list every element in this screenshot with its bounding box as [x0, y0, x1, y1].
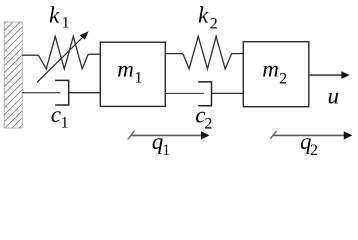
label c1 [51, 102, 69, 132]
wire damper c1 to mass m1 [69, 92, 101, 94]
label q2 [300, 129, 318, 159]
wire damper c2 to mass m2 [212, 92, 244, 94]
svg-text:1: 1 [62, 15, 70, 32]
label c2 [195, 102, 212, 132]
svg-text:k: k [198, 3, 209, 28]
svg-text:k: k [49, 3, 60, 28]
mass m2 box [243, 42, 308, 107]
damper c2 cylinder bracket [198, 82, 211, 106]
spring k2 zigzag [183, 36, 232, 69]
label k2 [198, 3, 218, 33]
wall (fixed support, hatched) [4, 22, 22, 128]
wire mass m1 to spring k2 [165, 53, 183, 55]
svg-text:u: u [328, 84, 340, 109]
damper c1 cylinder bracket [55, 80, 69, 105]
svg-text:c: c [51, 102, 61, 127]
svg-text:1: 1 [162, 142, 170, 159]
svg-text:m: m [117, 57, 134, 82]
svg-text:2: 2 [310, 142, 318, 159]
variable-spring arrow over k1 [37, 31, 89, 82]
svg-text:2: 2 [210, 16, 218, 33]
svg-text:2: 2 [204, 116, 212, 133]
wire spring k2 to mass m2 [232, 53, 244, 55]
mass m1 box [100, 42, 165, 106]
wire wall to spring k1 [22, 54, 38, 56]
label k1 [49, 3, 70, 32]
label m2 [262, 57, 287, 88]
damper c1 piston rod from wall [22, 92, 60, 94]
force arrow u on mass m2 [309, 71, 350, 79]
spring k1 zigzag [38, 36, 88, 69]
damper c2 piston rod from mass m1 [165, 92, 204, 94]
coordinate arrow q1 [128, 131, 210, 140]
svg-text:2: 2 [279, 71, 287, 88]
label q1 [152, 129, 171, 159]
svg-text:1: 1 [61, 115, 69, 132]
wire spring k1 to mass m1 [88, 53, 100, 55]
coordinate arrow q2 [270, 131, 352, 140]
svg-text:1: 1 [135, 70, 143, 87]
label m1 [117, 57, 142, 87]
svg-text:m: m [262, 57, 279, 82]
